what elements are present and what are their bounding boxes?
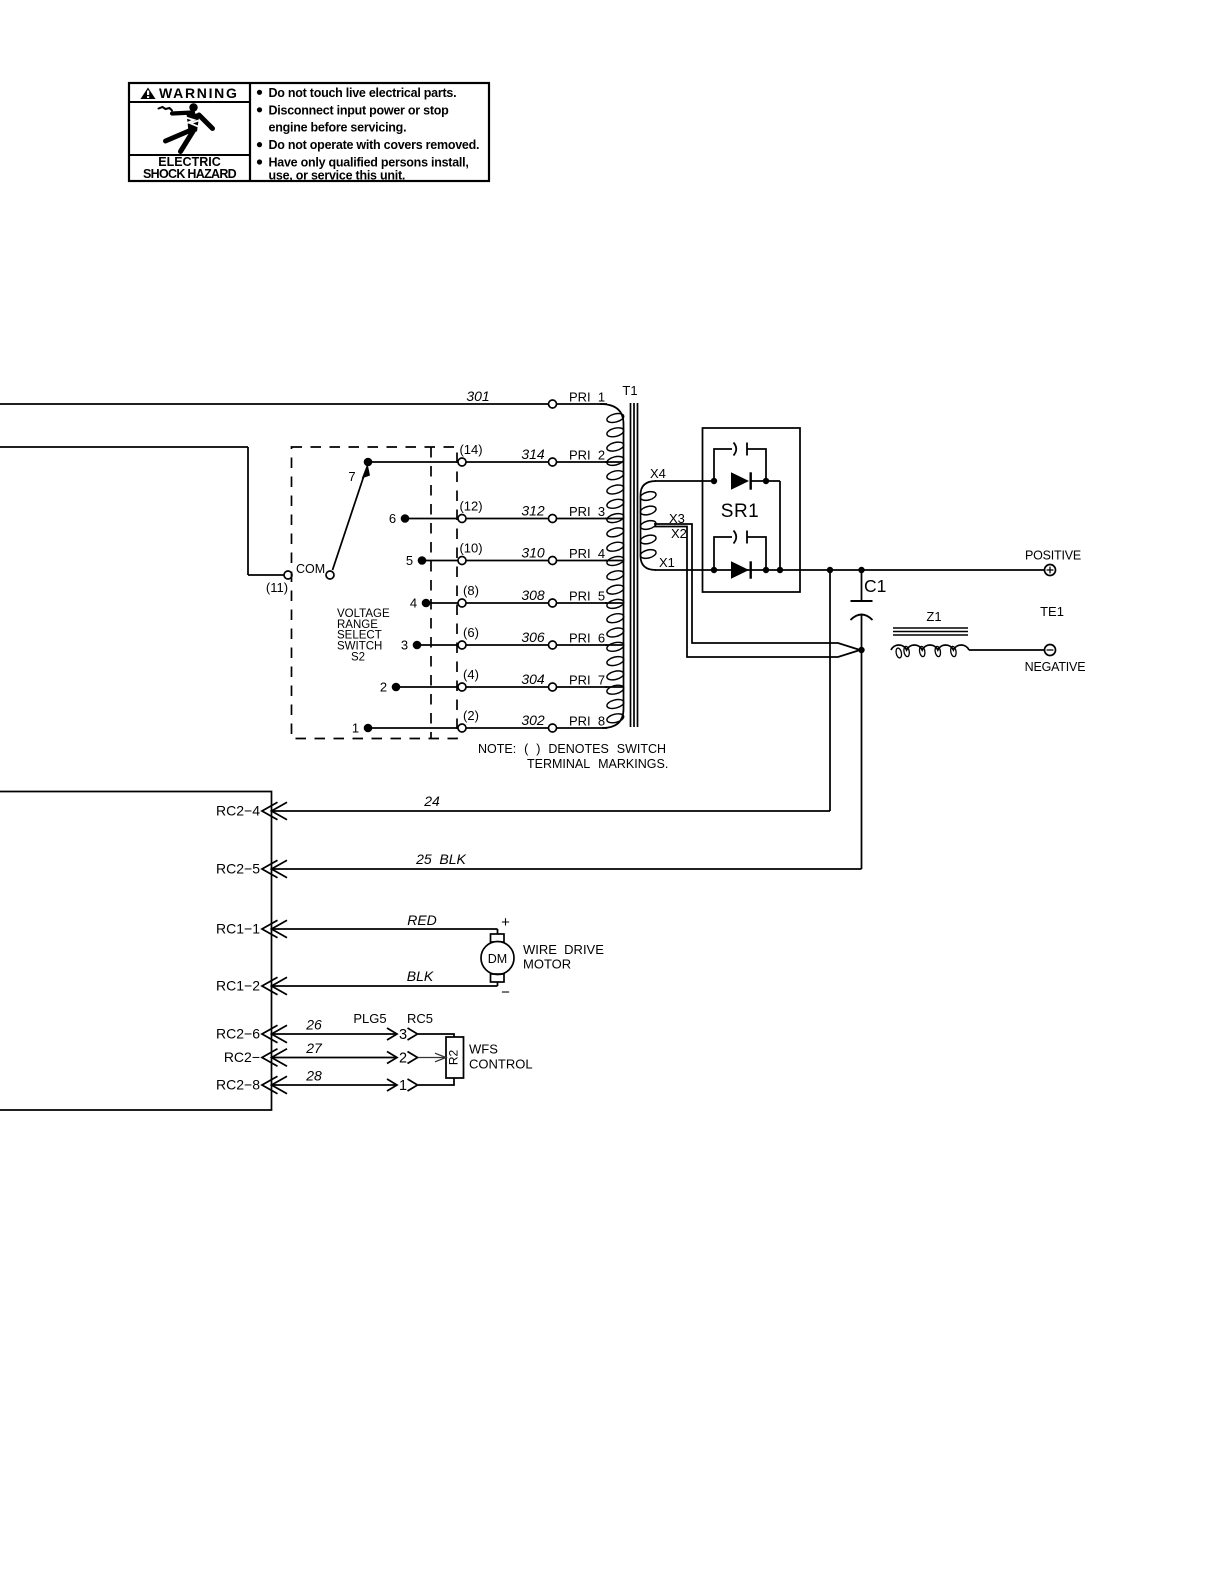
svg-text:RC5: RC5 bbox=[407, 1011, 433, 1026]
svg-text:(10): (10) bbox=[459, 540, 482, 555]
svg-text:C1: C1 bbox=[864, 576, 886, 596]
svg-text:301: 301 bbox=[466, 388, 489, 404]
svg-text:Do not operate with covers rem: Do not operate with covers removed. bbox=[269, 138, 480, 152]
svg-text:DM: DM bbox=[488, 952, 507, 966]
svg-text:WFS: WFS bbox=[469, 1042, 498, 1057]
svg-text:28: 28 bbox=[305, 1068, 322, 1084]
svg-text:PRI 5: PRI 5 bbox=[569, 589, 605, 604]
svg-text:RC2−6: RC2−6 bbox=[216, 1026, 260, 1042]
svg-text:X1: X1 bbox=[659, 555, 675, 570]
svg-text:S2: S2 bbox=[351, 651, 365, 663]
svg-text:X2: X2 bbox=[671, 526, 687, 541]
svg-text:(6): (6) bbox=[463, 625, 479, 640]
svg-text:2: 2 bbox=[399, 1050, 407, 1066]
svg-text:PRI 6: PRI 6 bbox=[569, 631, 605, 646]
svg-text:7: 7 bbox=[348, 469, 355, 484]
svg-text:310: 310 bbox=[521, 544, 545, 560]
svg-text:TERMINAL MARKINGS.: TERMINAL MARKINGS. bbox=[527, 757, 668, 771]
svg-text:PRI 8: PRI 8 bbox=[569, 714, 605, 729]
svg-text:26: 26 bbox=[305, 1017, 322, 1033]
svg-text:Have only qualified persons in: Have only qualified persons install, bbox=[269, 156, 469, 170]
svg-text:T1: T1 bbox=[622, 383, 637, 398]
svg-text:302: 302 bbox=[521, 712, 545, 728]
svg-text:1: 1 bbox=[399, 1078, 407, 1094]
svg-text:PRI 1: PRI 1 bbox=[569, 390, 605, 405]
svg-text:WARNING: WARNING bbox=[159, 85, 239, 101]
svg-text:RED: RED bbox=[407, 912, 437, 928]
svg-text:PRI 3: PRI 3 bbox=[569, 504, 605, 519]
svg-text:1: 1 bbox=[352, 721, 359, 736]
svg-text:27: 27 bbox=[305, 1040, 323, 1056]
svg-text:308: 308 bbox=[521, 587, 545, 603]
svg-text:RC2−8: RC2−8 bbox=[216, 1077, 260, 1093]
svg-text:314: 314 bbox=[521, 446, 545, 462]
svg-text:PRI 2: PRI 2 bbox=[569, 448, 605, 463]
svg-text:25 BLK: 25 BLK bbox=[415, 851, 466, 867]
svg-text:3: 3 bbox=[401, 638, 408, 653]
svg-text:PRI 7: PRI 7 bbox=[569, 673, 605, 688]
svg-text:use, or service this unit.: use, or service this unit. bbox=[269, 168, 406, 182]
svg-text:Z1: Z1 bbox=[926, 609, 941, 624]
svg-text:−: − bbox=[501, 984, 510, 1001]
svg-text:R2: R2 bbox=[447, 1050, 461, 1066]
svg-text:24: 24 bbox=[423, 793, 440, 809]
svg-text:RC2−5: RC2−5 bbox=[216, 861, 260, 877]
svg-text:TE1: TE1 bbox=[1040, 604, 1064, 619]
svg-text:6: 6 bbox=[389, 511, 396, 526]
svg-text:Disconnect input power or stop: Disconnect input power or stop bbox=[269, 103, 450, 117]
svg-text:RC1−2: RC1−2 bbox=[216, 978, 260, 994]
svg-text:4: 4 bbox=[410, 596, 417, 611]
svg-text:RC2−4: RC2−4 bbox=[216, 803, 260, 819]
svg-text:BLK: BLK bbox=[407, 968, 434, 984]
svg-text:+: + bbox=[501, 914, 510, 931]
svg-text:SHOCK HAZARD: SHOCK HAZARD bbox=[143, 167, 237, 181]
svg-text:2: 2 bbox=[380, 680, 387, 695]
svg-text:306: 306 bbox=[521, 629, 545, 645]
svg-text:(4): (4) bbox=[463, 667, 479, 682]
svg-text:(14): (14) bbox=[459, 442, 482, 457]
svg-text:5: 5 bbox=[406, 553, 413, 568]
svg-text:RC1−1: RC1−1 bbox=[216, 921, 260, 937]
svg-text:COM: COM bbox=[296, 562, 325, 576]
svg-text:RC2−: RC2− bbox=[224, 1049, 260, 1065]
svg-text:CONTROL: CONTROL bbox=[469, 1057, 533, 1072]
svg-text:(2): (2) bbox=[463, 708, 479, 723]
svg-text:(11): (11) bbox=[266, 580, 288, 595]
svg-text:PRI 4: PRI 4 bbox=[569, 546, 605, 561]
svg-text:WIRE DRIVE: WIRE DRIVE bbox=[523, 942, 604, 957]
svg-text:POSITIVE: POSITIVE bbox=[1025, 549, 1081, 563]
svg-text:Do not touch live electrical p: Do not touch live electrical parts. bbox=[269, 86, 457, 100]
svg-text:SR1: SR1 bbox=[721, 501, 759, 522]
svg-text:X4: X4 bbox=[650, 466, 666, 481]
svg-text:NOTE: ( ) DENOTES SWITCH: NOTE: ( ) DENOTES SWITCH bbox=[478, 742, 666, 756]
svg-text:3: 3 bbox=[399, 1027, 407, 1043]
svg-text:MOTOR: MOTOR bbox=[523, 957, 571, 972]
svg-text:NEGATIVE: NEGATIVE bbox=[1025, 660, 1086, 674]
svg-text:(8): (8) bbox=[463, 583, 479, 598]
svg-text:PLG5: PLG5 bbox=[353, 1011, 386, 1026]
svg-text:engine before servicing.: engine before servicing. bbox=[269, 121, 407, 135]
svg-text:304: 304 bbox=[521, 671, 545, 687]
svg-text:312: 312 bbox=[521, 502, 545, 518]
svg-text:(12): (12) bbox=[459, 498, 482, 513]
